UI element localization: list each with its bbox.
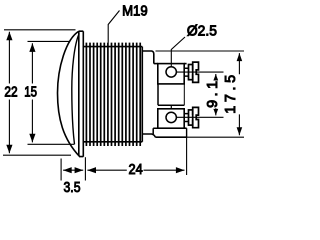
extension line top for dim 22	[4, 29, 76, 31]
svg-text:15: 15	[24, 85, 37, 101]
terminal block top edge extension	[184, 63, 186, 65]
recess step	[170, 105, 172, 109]
housing body top shoulder to block top	[154, 63, 158, 65]
dimension line 9.1	[215, 74, 217, 115]
barrel rear edge	[141, 47, 143, 142]
extension line bottom for dim 22	[3, 154, 71, 156]
housing body bottom edge	[155, 136, 186, 138]
slot / extension line for dim 9.1 top	[176, 71, 223, 73]
arrow right dim 24	[176, 167, 185, 173]
extension line top for dim 17.5	[156, 50, 245, 52]
housing recess between terminals	[158, 84, 184, 105]
leader line diameter 2.5	[171, 37, 185, 67]
extension line bottom for dim 15	[28, 143, 75, 145]
dimension line 15	[31, 43, 33, 142]
screw shaft top	[184, 68, 188, 76]
cap dome seam arc	[72, 34, 79, 145]
housing collar bottom edge	[142, 134, 155, 137]
svg-text:M19: M19	[122, 3, 148, 19]
housing rear edge lower	[186, 128, 188, 137]
svg-text:22: 22	[4, 85, 17, 101]
extension line left for dim 3.5	[60, 159, 62, 181]
slot / extension line for dim 9.1 bottom	[176, 116, 223, 118]
screw collar top	[189, 65, 193, 80]
arrow down dim 17.5	[237, 127, 243, 135]
svg-text:24: 24	[129, 162, 143, 178]
cap bezel	[79, 31, 84, 157]
screw head bottom	[193, 107, 199, 127]
terminal block top	[158, 64, 184, 84]
screw head circle bottom	[166, 112, 176, 122]
arrow right dim 3.5	[75, 167, 84, 173]
screw shaft bottom	[184, 114, 188, 122]
svg-text:9.1: 9.1	[205, 81, 221, 108]
svg-text:17.5: 17.5	[223, 75, 239, 114]
svg-text:Ø2.5: Ø2.5	[187, 24, 217, 40]
extension line bottom for dim 17.5	[187, 136, 244, 138]
extension line for dim 24	[186, 137, 188, 175]
leader line M19	[108, 11, 119, 43]
dimension line 3.5	[63, 169, 83, 171]
thread root line top	[83, 46, 142, 48]
arrow up dim 15	[29, 43, 35, 52]
thread crest lines	[86, 43, 140, 146]
svg-text:3.5: 3.5	[64, 180, 81, 196]
extension line top for dim 15	[28, 40, 70, 42]
dimension line 24	[87, 169, 184, 171]
arrow left dim 3.5	[63, 167, 72, 173]
screw head top	[193, 62, 199, 82]
dimension line 17.5	[238, 53, 240, 135]
arrow down dim 15	[29, 134, 35, 143]
terminal block bottom	[158, 109, 184, 128]
terminal block bottom edge extension	[184, 127, 186, 129]
arrow up dim 17.5	[237, 53, 243, 61]
arrow down dim 22	[6, 145, 12, 154]
dimension line 22	[8, 32, 10, 154]
arrow up dim 9.1	[213, 74, 218, 81]
screw collar bottom	[189, 110, 193, 125]
arrow down dim 9.1	[213, 109, 218, 116]
arrow up dim 22	[6, 32, 12, 41]
cap dome outer arc	[58, 31, 80, 156]
extension line right for dim 3.5 / 24	[84, 157, 86, 180]
thread root line bottom	[83, 141, 142, 143]
housing collar top edge	[142, 51, 154, 64]
screw head circle top	[166, 67, 176, 77]
housing bottom shoulder	[153, 128, 158, 134]
arrow left dim 24	[87, 167, 96, 173]
